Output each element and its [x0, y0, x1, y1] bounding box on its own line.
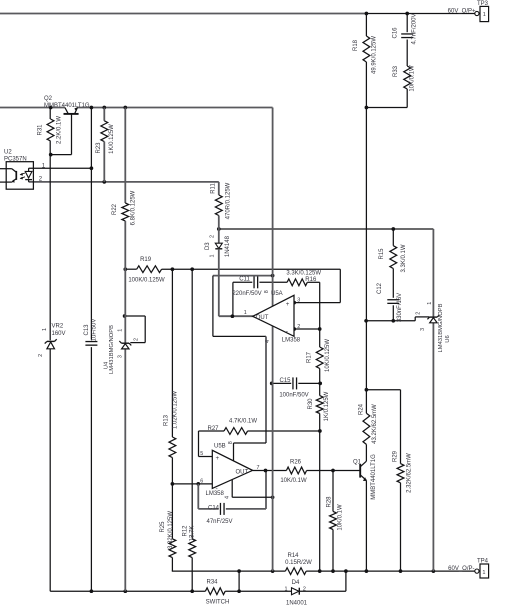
svg-text:10K/0.1W: 10K/0.1W [338, 504, 344, 531]
svg-text:47nF/25V: 47nF/25V [206, 519, 232, 525]
svg-text:D4: D4 [292, 580, 300, 586]
svg-text:3: 3 [297, 297, 300, 303]
svg-text:Q2: Q2 [44, 96, 53, 102]
svg-text:R24: R24 [359, 403, 365, 415]
svg-text:R34: R34 [206, 580, 218, 586]
svg-text:C13: C13 [84, 324, 90, 336]
svg-text:R22: R22 [112, 203, 118, 215]
svg-text:C15: C15 [279, 378, 291, 384]
svg-text:0.15R/2W: 0.15R/2W [285, 560, 312, 566]
svg-text:330nF/16V: 330nF/16V [397, 293, 403, 322]
svg-text:1: 1 [285, 587, 288, 593]
svg-text:R13: R13 [164, 414, 170, 426]
svg-text:R12: R12 [183, 525, 189, 537]
svg-text:5: 5 [200, 451, 203, 457]
svg-text:OUT: OUT [236, 469, 249, 475]
svg-text:60V_O/P-: 60V_O/P- [448, 566, 474, 572]
svg-text:100K/0.125W: 100K/0.125W [128, 278, 165, 284]
svg-text:2.32K/62.5mW: 2.32K/62.5mW [407, 453, 413, 493]
svg-text:3.3K/0.125W: 3.3K/0.125W [286, 271, 321, 277]
svg-text:1: 1 [244, 310, 247, 316]
svg-text:SWITCH: SWITCH [206, 600, 230, 606]
svg-text:R11: R11 [211, 183, 217, 194]
svg-text:160V: 160V [52, 331, 66, 337]
svg-text:10K/0.125W: 10K/0.125W [325, 339, 331, 372]
svg-text:-: - [286, 328, 288, 335]
svg-text:U5A: U5A [271, 291, 283, 297]
svg-text:6: 6 [200, 478, 203, 484]
svg-text:R27: R27 [207, 426, 219, 432]
svg-text:C16: C16 [393, 27, 399, 39]
svg-text:8: 8 [228, 441, 234, 444]
svg-text:LM431BMG/NOPB: LM431BMG/NOPB [109, 325, 115, 374]
svg-text:C11: C11 [239, 277, 250, 283]
svg-text:MMBT4401LT1G: MMBT4401LT1G [371, 454, 377, 500]
svg-text:R33: R33 [393, 65, 399, 77]
svg-text:PC357N: PC357N [4, 157, 27, 163]
svg-text:10K/0.1W: 10K/0.1W [280, 478, 307, 484]
svg-text:R25: R25 [160, 521, 166, 533]
svg-text:3.32K/0.125W: 3.32K/0.125W [168, 511, 174, 549]
svg-text:1K/0.125W: 1K/0.125W [324, 391, 330, 421]
svg-text:+: + [216, 455, 220, 462]
svg-text:3: 3 [420, 328, 426, 331]
svg-text:100nF/50V: 100nF/50V [279, 393, 308, 399]
svg-text:1uF/50V: 1uF/50V [92, 319, 98, 342]
svg-text:TP4: TP4 [477, 559, 489, 565]
svg-text:1N4001: 1N4001 [286, 600, 308, 606]
svg-text:R14: R14 [287, 553, 299, 559]
svg-text:R31: R31 [38, 124, 44, 136]
svg-text:4.7K/0.1W: 4.7K/0.1W [229, 418, 257, 424]
svg-text:2: 2 [210, 235, 216, 238]
svg-text:1: 1 [482, 570, 485, 576]
svg-text:3: 3 [117, 355, 123, 358]
svg-text:R17: R17 [307, 351, 313, 363]
svg-text:470R/0.125W: 470R/0.125W [226, 182, 232, 219]
svg-text:1: 1 [210, 255, 216, 258]
svg-text:10K/0.1W: 10K/0.1W [410, 65, 416, 92]
svg-text:13.7K: 13.7K [190, 526, 196, 542]
svg-text:4: 4 [225, 496, 231, 499]
svg-text:4.7nF/200V: 4.7nF/200V [412, 13, 418, 44]
svg-text:LM431BMG/NOPB: LM431BMG/NOPB [438, 303, 444, 352]
svg-text:+: + [286, 301, 290, 308]
svg-text:VR2: VR2 [52, 324, 64, 330]
svg-text:R16: R16 [305, 277, 317, 283]
svg-text:D3: D3 [205, 242, 211, 250]
svg-text:R26: R26 [290, 460, 302, 466]
svg-text:1.02K/0.125W: 1.02K/0.125W [172, 391, 178, 429]
svg-text:3.3K/0.1W: 3.3K/0.1W [401, 244, 407, 272]
svg-text:60V_O/P+: 60V_O/P+ [448, 9, 476, 15]
svg-text:1: 1 [483, 12, 486, 18]
svg-text:1: 1 [117, 329, 123, 332]
svg-text:1: 1 [427, 302, 433, 305]
svg-text:R28: R28 [327, 496, 333, 508]
svg-text:220nF/50V: 220nF/50V [232, 291, 261, 297]
svg-text:U2: U2 [4, 150, 12, 156]
svg-text:2: 2 [134, 338, 140, 341]
svg-text:4: 4 [265, 340, 271, 343]
svg-text:Q1: Q1 [353, 460, 362, 466]
svg-text:43.2K/62.5mW: 43.2K/62.5mW [372, 404, 378, 444]
svg-text:2.2K/0.1W: 2.2K/0.1W [57, 116, 63, 144]
svg-text:R15: R15 [379, 248, 385, 260]
svg-text:U5B: U5B [214, 444, 226, 450]
svg-text:OUT: OUT [256, 315, 269, 321]
svg-text:U6: U6 [445, 335, 451, 342]
svg-text:C14: C14 [208, 505, 220, 511]
svg-text:2: 2 [303, 587, 306, 593]
svg-text:MMBT4401LT1G: MMBT4401LT1G [44, 103, 90, 109]
svg-text:R29: R29 [393, 450, 399, 462]
svg-text:8: 8 [264, 290, 270, 293]
svg-text:1K/0.125W: 1K/0.125W [109, 124, 115, 154]
svg-text:6.8K/0.125W: 6.8K/0.125W [131, 190, 137, 225]
svg-text:C12: C12 [377, 282, 383, 294]
svg-text:2: 2 [38, 354, 44, 357]
svg-text:LM358: LM358 [206, 491, 225, 497]
svg-text:R19: R19 [140, 257, 152, 263]
svg-text:7: 7 [257, 465, 260, 471]
svg-text:R18: R18 [353, 39, 359, 51]
svg-text:LM358: LM358 [282, 338, 301, 344]
svg-text:2: 2 [297, 324, 300, 330]
svg-text:49.9K/0.125W: 49.9K/0.125W [372, 36, 378, 74]
svg-text:1: 1 [42, 328, 48, 331]
svg-text:R30: R30 [308, 398, 314, 410]
svg-text:1N4148: 1N4148 [225, 235, 231, 257]
svg-text:TP3: TP3 [477, 1, 489, 7]
svg-text:R23: R23 [96, 142, 102, 154]
svg-text:2: 2 [416, 312, 422, 315]
